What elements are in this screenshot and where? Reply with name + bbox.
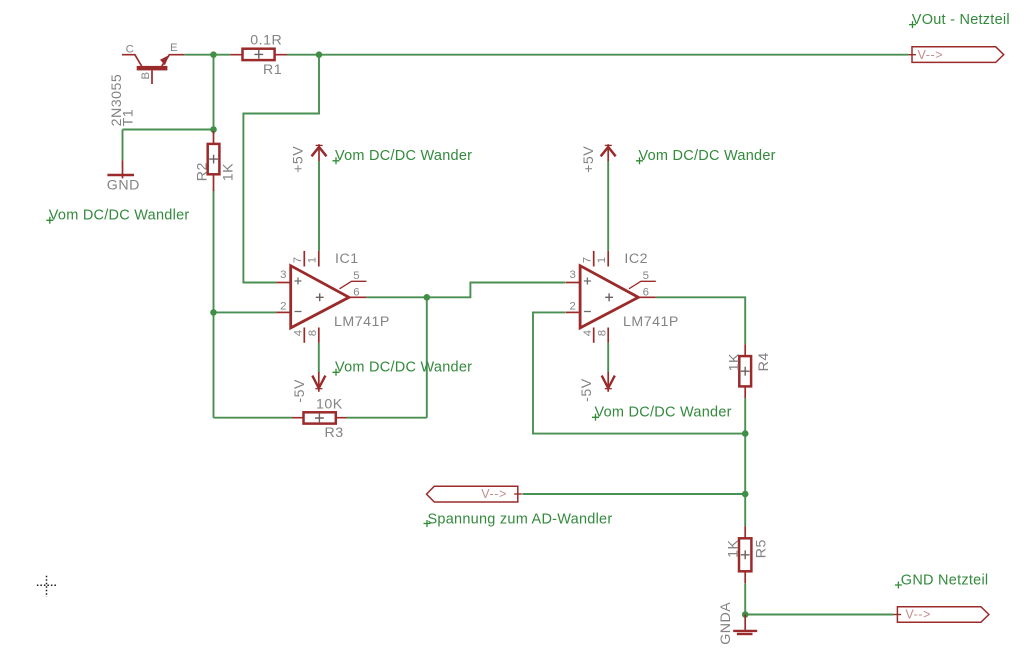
svg-text:R5: R5: [754, 539, 770, 558]
net label VOut - Netzteil: [909, 12, 1010, 28]
wire feedback column to R3: [214, 312, 293, 417]
wire IC2 output to R4: [656, 297, 745, 344]
svg-text:R4: R4: [756, 352, 772, 371]
net label Vom DC/DC Wander at IC2 -5V: [592, 405, 732, 421]
power +5V supply IC1: [291, 144, 327, 173]
svg-text:7: 7: [292, 257, 304, 263]
svg-text:+5V: +5V: [291, 146, 307, 173]
origin cross: [605, 293, 613, 301]
svg-text:IC2: IC2: [624, 251, 648, 267]
minus input mark: [584, 311, 591, 313]
minus input mark: [295, 311, 302, 313]
wire R2 bottom to IC1 pin2 row: [214, 190, 277, 312]
svg-text:8: 8: [307, 330, 319, 336]
pin 6 output: [349, 296, 366, 298]
power +5V supply IC2: [581, 144, 616, 173]
svg-text:1K: 1K: [725, 540, 741, 558]
svg-text:1: 1: [307, 257, 319, 263]
wire IC1 bottom pin to -5V: [318, 343, 320, 372]
resistor R5 1K: [725, 526, 769, 583]
plus input mark: [584, 278, 591, 285]
node junction at (426.8,297.3): [424, 294, 431, 301]
connector flag to AD-Wandler: [427, 486, 522, 502]
wire net VOUT top rail: [184, 54, 908, 56]
svg-text:4: 4: [582, 330, 594, 336]
wire node to AD flag row: [522, 434, 745, 494]
connector flag GND bottom right: [894, 607, 989, 623]
svg-text:GND Netzteil: GND Netzteil: [901, 573, 989, 589]
wire R4 bottom to node: [744, 398, 746, 433]
pin 3: [276, 282, 291, 284]
node junction at (213.5,312.4): [210, 309, 217, 316]
svg-text:IC1: IC1: [335, 251, 359, 267]
svg-text:R2: R2: [194, 162, 210, 181]
svg-text:T1: T1: [121, 109, 137, 127]
sheet origin cross: [37, 576, 58, 597]
wire junction2 step down to IC1 pin3: [243, 55, 319, 283]
pin 3: [566, 282, 581, 284]
svg-text:Vom DC/DC Wandler: Vom DC/DC Wandler: [49, 208, 190, 224]
pin 4: [593, 328, 595, 343]
pin 8: [607, 328, 609, 343]
svg-text:Vom DC/DC Wander: Vom DC/DC Wander: [595, 405, 732, 421]
pin 7: [303, 251, 305, 267]
svg-text:Vom DC/DC Wander: Vom DC/DC Wander: [335, 148, 472, 164]
pin 2: [566, 311, 581, 313]
svg-text:8: 8: [596, 330, 608, 336]
node junction at (213.5,54.7): [210, 51, 217, 58]
svg-text:C: C: [126, 43, 134, 55]
svg-text:R1: R1: [263, 62, 282, 78]
pin 1: [607, 251, 609, 267]
svg-text:3: 3: [570, 269, 576, 281]
svg-text:2: 2: [280, 300, 286, 312]
net label Vom DC/DC Wander at IC2 +5V: [636, 148, 776, 164]
pin 8: [318, 328, 320, 343]
svg-text:1: 1: [596, 257, 608, 263]
svg-text:Vom DC/DC Wander: Vom DC/DC Wander: [335, 360, 472, 376]
ground GNDA symbol: [718, 602, 757, 645]
svg-text:-5V: -5V: [292, 379, 308, 403]
pin 2: [276, 311, 291, 313]
triangle body: [580, 266, 638, 328]
svg-text:Vom DC/DC Wander: Vom DC/DC Wander: [639, 148, 776, 164]
connector flag VOut top right: [908, 47, 1003, 63]
svg-text:LM741P: LM741P: [623, 314, 679, 330]
pin 5 offset: [629, 281, 656, 289]
svg-text:5: 5: [643, 270, 649, 282]
svg-text:V-->: V-->: [905, 608, 931, 622]
svg-text:-5V: -5V: [579, 378, 595, 402]
svg-text:1K: 1K: [727, 353, 743, 371]
origin cross: [316, 293, 324, 301]
svg-text:6: 6: [643, 286, 649, 298]
ground GND symbol: [107, 160, 140, 193]
svg-text:B: B: [140, 72, 152, 80]
net label Vom DC/DC Wandler left: [46, 208, 189, 224]
net label GND Netzteil: [895, 573, 989, 589]
node junction at (213.5,129.5): [210, 126, 217, 133]
transistor T1 2N3055: [109, 42, 184, 126]
svg-text:LM741P: LM741P: [334, 314, 390, 330]
pin 4: [303, 328, 305, 343]
svg-text:Spannung zum AD-Wandler: Spannung zum AD-Wandler: [428, 512, 613, 528]
svg-text:4: 4: [293, 330, 305, 336]
op-amp IC2 LM741P: [566, 251, 679, 343]
pin 6 output: [638, 296, 655, 298]
op-amp IC1 LM741P: [276, 251, 390, 343]
wire GNDA node to GND flag: [745, 614, 893, 616]
svg-text:VOut - Netzteil: VOut - Netzteil: [912, 12, 1010, 28]
plus input mark: [295, 278, 302, 285]
svg-text:0.1R: 0.1R: [250, 33, 282, 49]
node junction at (319,54.7): [316, 51, 323, 58]
pin 7: [593, 251, 595, 267]
node junction at (745.2,433.6): [742, 430, 749, 437]
svg-text:E: E: [170, 42, 178, 54]
node junction at (745.2,494): [742, 491, 749, 498]
wire junction1 to R2 column: [213, 55, 215, 134]
resistor R3 10K: [292, 397, 347, 442]
wire IC1 output to IC2 pin3 with step: [366, 283, 565, 298]
resistor R4 1K: [727, 344, 772, 398]
resistor R2 1K: [194, 131, 236, 191]
svg-text:GND: GND: [107, 177, 140, 193]
net label Vom DC/DC Wander at IC1 +5V: [333, 148, 473, 164]
svg-text:6: 6: [353, 286, 359, 298]
wire IC2 bottom pin to -5V: [607, 343, 609, 372]
net label Vom DC/DC Wander at IC1 -5V: [333, 360, 473, 376]
svg-text:GNDA: GNDA: [718, 602, 734, 645]
net label Spannung zum AD-Wandler: [424, 512, 613, 528]
svg-text:5: 5: [353, 270, 359, 282]
wire R5 bottom to GNDA node: [744, 583, 746, 614]
pin 1: [318, 251, 320, 267]
power -5V supply IC1: [292, 372, 325, 403]
triangle body: [291, 266, 349, 328]
wire +5V supply to IC1 top pin: [318, 161, 320, 251]
pin 5 offset: [340, 281, 367, 289]
wire to GND: [123, 130, 214, 161]
svg-text:7: 7: [581, 257, 593, 263]
svg-text:3: 3: [280, 269, 286, 281]
wire IC2 feedback loop: [533, 312, 745, 433]
svg-text:V-->: V-->: [481, 487, 507, 501]
svg-text:1K: 1K: [221, 163, 237, 181]
node junction at (745.2,614.5): [742, 611, 749, 618]
svg-text:2: 2: [570, 300, 576, 312]
wire down to R5: [744, 494, 746, 526]
svg-text:10K: 10K: [316, 397, 343, 413]
power -5V supply IC2: [579, 372, 615, 402]
svg-text:+5V: +5V: [581, 146, 597, 173]
resistor R1 0.1R: [230, 33, 287, 78]
wire R3 right up to output node: [347, 297, 427, 417]
svg-text:R3: R3: [325, 425, 344, 441]
wire +5V supply to IC2 top pin: [607, 161, 609, 251]
svg-text:V-->: V-->: [918, 48, 944, 62]
